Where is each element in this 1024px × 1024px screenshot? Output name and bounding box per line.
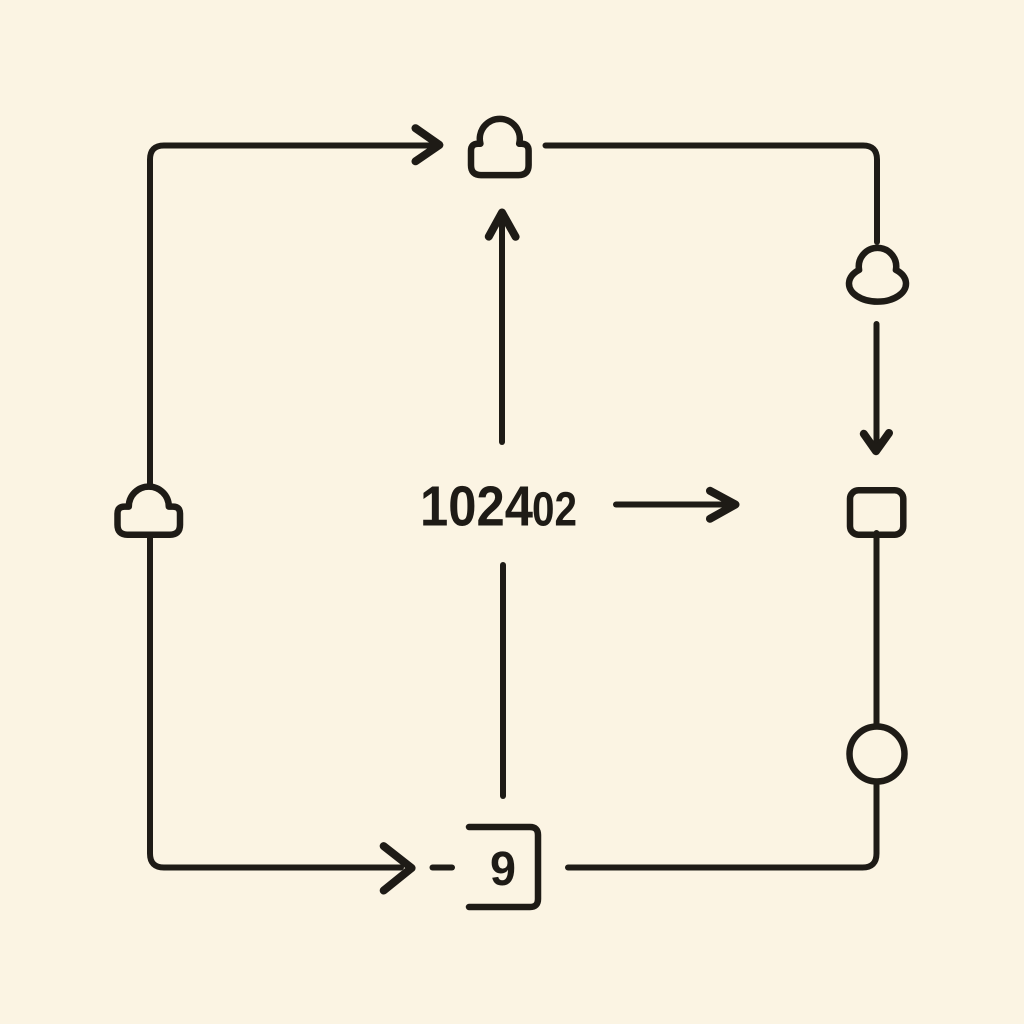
svg-text:1024: 1024	[420, 475, 534, 538]
box N9 open-left bracket	[469, 827, 538, 907]
wire top right	[546, 146, 878, 243]
svg-text:9: 9	[490, 842, 516, 896]
cloud C3 left side (left wire passes behind)	[118, 487, 181, 535]
cloud C2 right side	[849, 248, 906, 302]
wire center vertical below label	[500, 565, 506, 796]
arrowhead bottom (into box N9)	[384, 846, 412, 890]
arrowhead middle right	[710, 491, 736, 519]
circle node right side	[850, 727, 905, 782]
wire left loop: top horizontal, left vertical, bottom horizontal	[150, 146, 430, 868]
wire right vertical down to bottom	[568, 533, 877, 868]
square node right side	[850, 490, 903, 534]
dash before box N9	[433, 865, 453, 871]
arrow middle right	[616, 502, 730, 508]
arrow up center	[499, 216, 505, 442]
arrowhead up	[489, 213, 516, 237]
arrow down right side	[874, 324, 880, 442]
svg-text:02: 02	[532, 483, 577, 537]
cloud-lock U1 top center	[471, 119, 529, 175]
arrowhead down	[864, 433, 889, 451]
arrowhead top (into cloud U1)	[416, 128, 440, 161]
